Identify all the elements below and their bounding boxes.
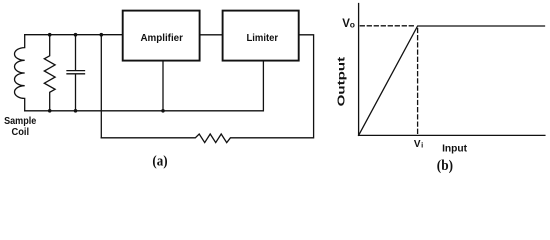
svg-text:V: V (414, 139, 421, 150)
svg-text:Output: Output (335, 56, 347, 106)
svg-text:Amplifier: Amplifier (140, 33, 183, 44)
svg-text:Limiter: Limiter (247, 33, 279, 44)
svg-text:o: o (350, 20, 355, 30)
svg-text:i: i (421, 140, 423, 149)
svg-text:Input: Input (442, 144, 468, 155)
svg-text:(a): (a) (152, 154, 167, 170)
svg-text:(b): (b) (437, 158, 453, 174)
svg-text:Coil: Coil (11, 126, 29, 138)
